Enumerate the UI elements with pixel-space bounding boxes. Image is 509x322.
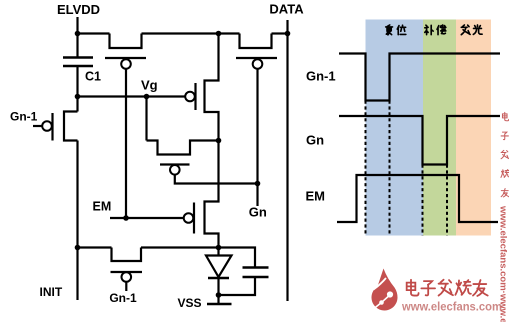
transistor T2 channel [240, 34, 272, 49]
watermark title 电子发烧友 [407, 280, 488, 296]
signal Gn-1 waveform [339, 54, 500, 101]
wire ELVDD lead [76, 17, 78, 34]
svg-text:INIT: INIT [40, 285, 63, 299]
wire top rail segment A [78, 32, 110, 34]
node OLED cathode [216, 292, 222, 298]
dashed marker t3 [422, 165, 424, 236]
wire T6 gate stub [125, 282, 127, 292]
diode OLED lead top [217, 248, 219, 256]
svg-text:Vg: Vg [141, 78, 158, 93]
transistor T3 gate circle [170, 165, 180, 175]
transistor T2 gate circle [253, 59, 263, 69]
svg-text:www.elecfans.com: www.elecfans.com [401, 300, 502, 314]
transistor T1 gate bar [105, 57, 146, 59]
svg-text:DATA: DATA [269, 2, 304, 17]
node OLED anode [216, 245, 222, 251]
node Vg-C1 [75, 94, 81, 100]
wire DATA line [286, 20, 288, 301]
diode OLED triangle [206, 256, 232, 278]
wire top rail segment C [272, 32, 288, 34]
svg-text:EM: EM [306, 189, 326, 204]
transistor T4 gate bar [193, 203, 195, 234]
transistor T4 channel [205, 141, 219, 248]
phase band: emission (orange) [456, 20, 491, 236]
band label 发光 [461, 25, 482, 35]
transistor T3 channel [147, 141, 219, 155]
wire T3 gate to Gn node [175, 175, 258, 184]
svg-text:Gn: Gn [306, 133, 324, 148]
watermark vertical glyphs [501, 112, 509, 197]
wire T2 gate to Gn node [256, 69, 258, 207]
svg-text:VSS: VSS [178, 296, 202, 310]
svg-text:Gn-1: Gn-1 [306, 69, 336, 84]
wire INIT rail bottom [76, 248, 78, 301]
signal EM waveform [337, 175, 498, 222]
wire bottom row right [141, 246, 219, 248]
capacitor C2 plates [243, 268, 269, 278]
node top rail drive [216, 31, 222, 37]
transistor T4 gate circle [184, 213, 194, 223]
dashed marker t1 [365, 101, 367, 236]
svg-text:Gn: Gn [249, 205, 267, 220]
band label 复位 [386, 25, 406, 35]
svg-text:EM: EM [93, 200, 112, 214]
node Td drain [216, 138, 222, 144]
dashed marker t4 [446, 165, 448, 236]
wire bottom row left [78, 246, 112, 248]
node ELVDD junction [75, 31, 81, 37]
capacitor C2 lead bottom [219, 277, 256, 295]
diode OLED cathode bar [208, 277, 229, 280]
wire T1 gate to EM node [125, 69, 127, 219]
wire OLED to VSS [217, 278, 219, 304]
node Gn [255, 181, 261, 187]
ground VSS bar [207, 303, 232, 306]
transistor T6 gate circle [122, 272, 132, 282]
transistor T1 channel [110, 34, 142, 49]
phase band: compensation (green) [423, 20, 456, 236]
phase band: reset (blue) [366, 20, 424, 236]
node top rail DATA [285, 31, 291, 37]
transistor T3 gate bar [160, 163, 190, 165]
transistor T5 gate circle [42, 121, 52, 131]
capacitor C2 lead top [219, 248, 256, 268]
svg-text:Gn-1: Gn-1 [109, 291, 137, 305]
transistor T1 gate circle [121, 59, 131, 69]
node EM [123, 215, 129, 221]
transistor Td gate circle [185, 92, 195, 102]
transistor T2 gate bar [236, 57, 277, 59]
transistor T6 gate bar [111, 271, 143, 273]
signal Gn waveform [339, 116, 500, 165]
svg-text:Gn-1: Gn-1 [10, 110, 38, 124]
watermark logo disc [372, 269, 398, 311]
transistor Td gate bar [194, 83, 196, 110]
node INIT [75, 245, 81, 251]
dashed marker t2 [389, 101, 391, 236]
wire Vg line [78, 95, 186, 97]
svg-text:C1: C1 [85, 70, 101, 84]
wire EM line [110, 217, 184, 219]
capacitor C1 [63, 34, 93, 97]
wire Gn-1 lead left [33, 125, 43, 127]
wire Vg to T3 [145, 97, 147, 141]
node Vg [144, 94, 150, 100]
svg-text:ELVDD: ELVDD [57, 2, 100, 17]
transistor T5 gate bar [51, 113, 53, 141]
transistor T5 channel [64, 97, 78, 248]
transistor Td drive channel [205, 34, 219, 141]
wire top rail segment B [142, 32, 240, 34]
svg-text:www.elecfans.com·www.el: www.elecfans.com·www.el [498, 205, 509, 322]
band label 补偿 [425, 25, 446, 35]
transistor T6 channel [112, 248, 142, 262]
